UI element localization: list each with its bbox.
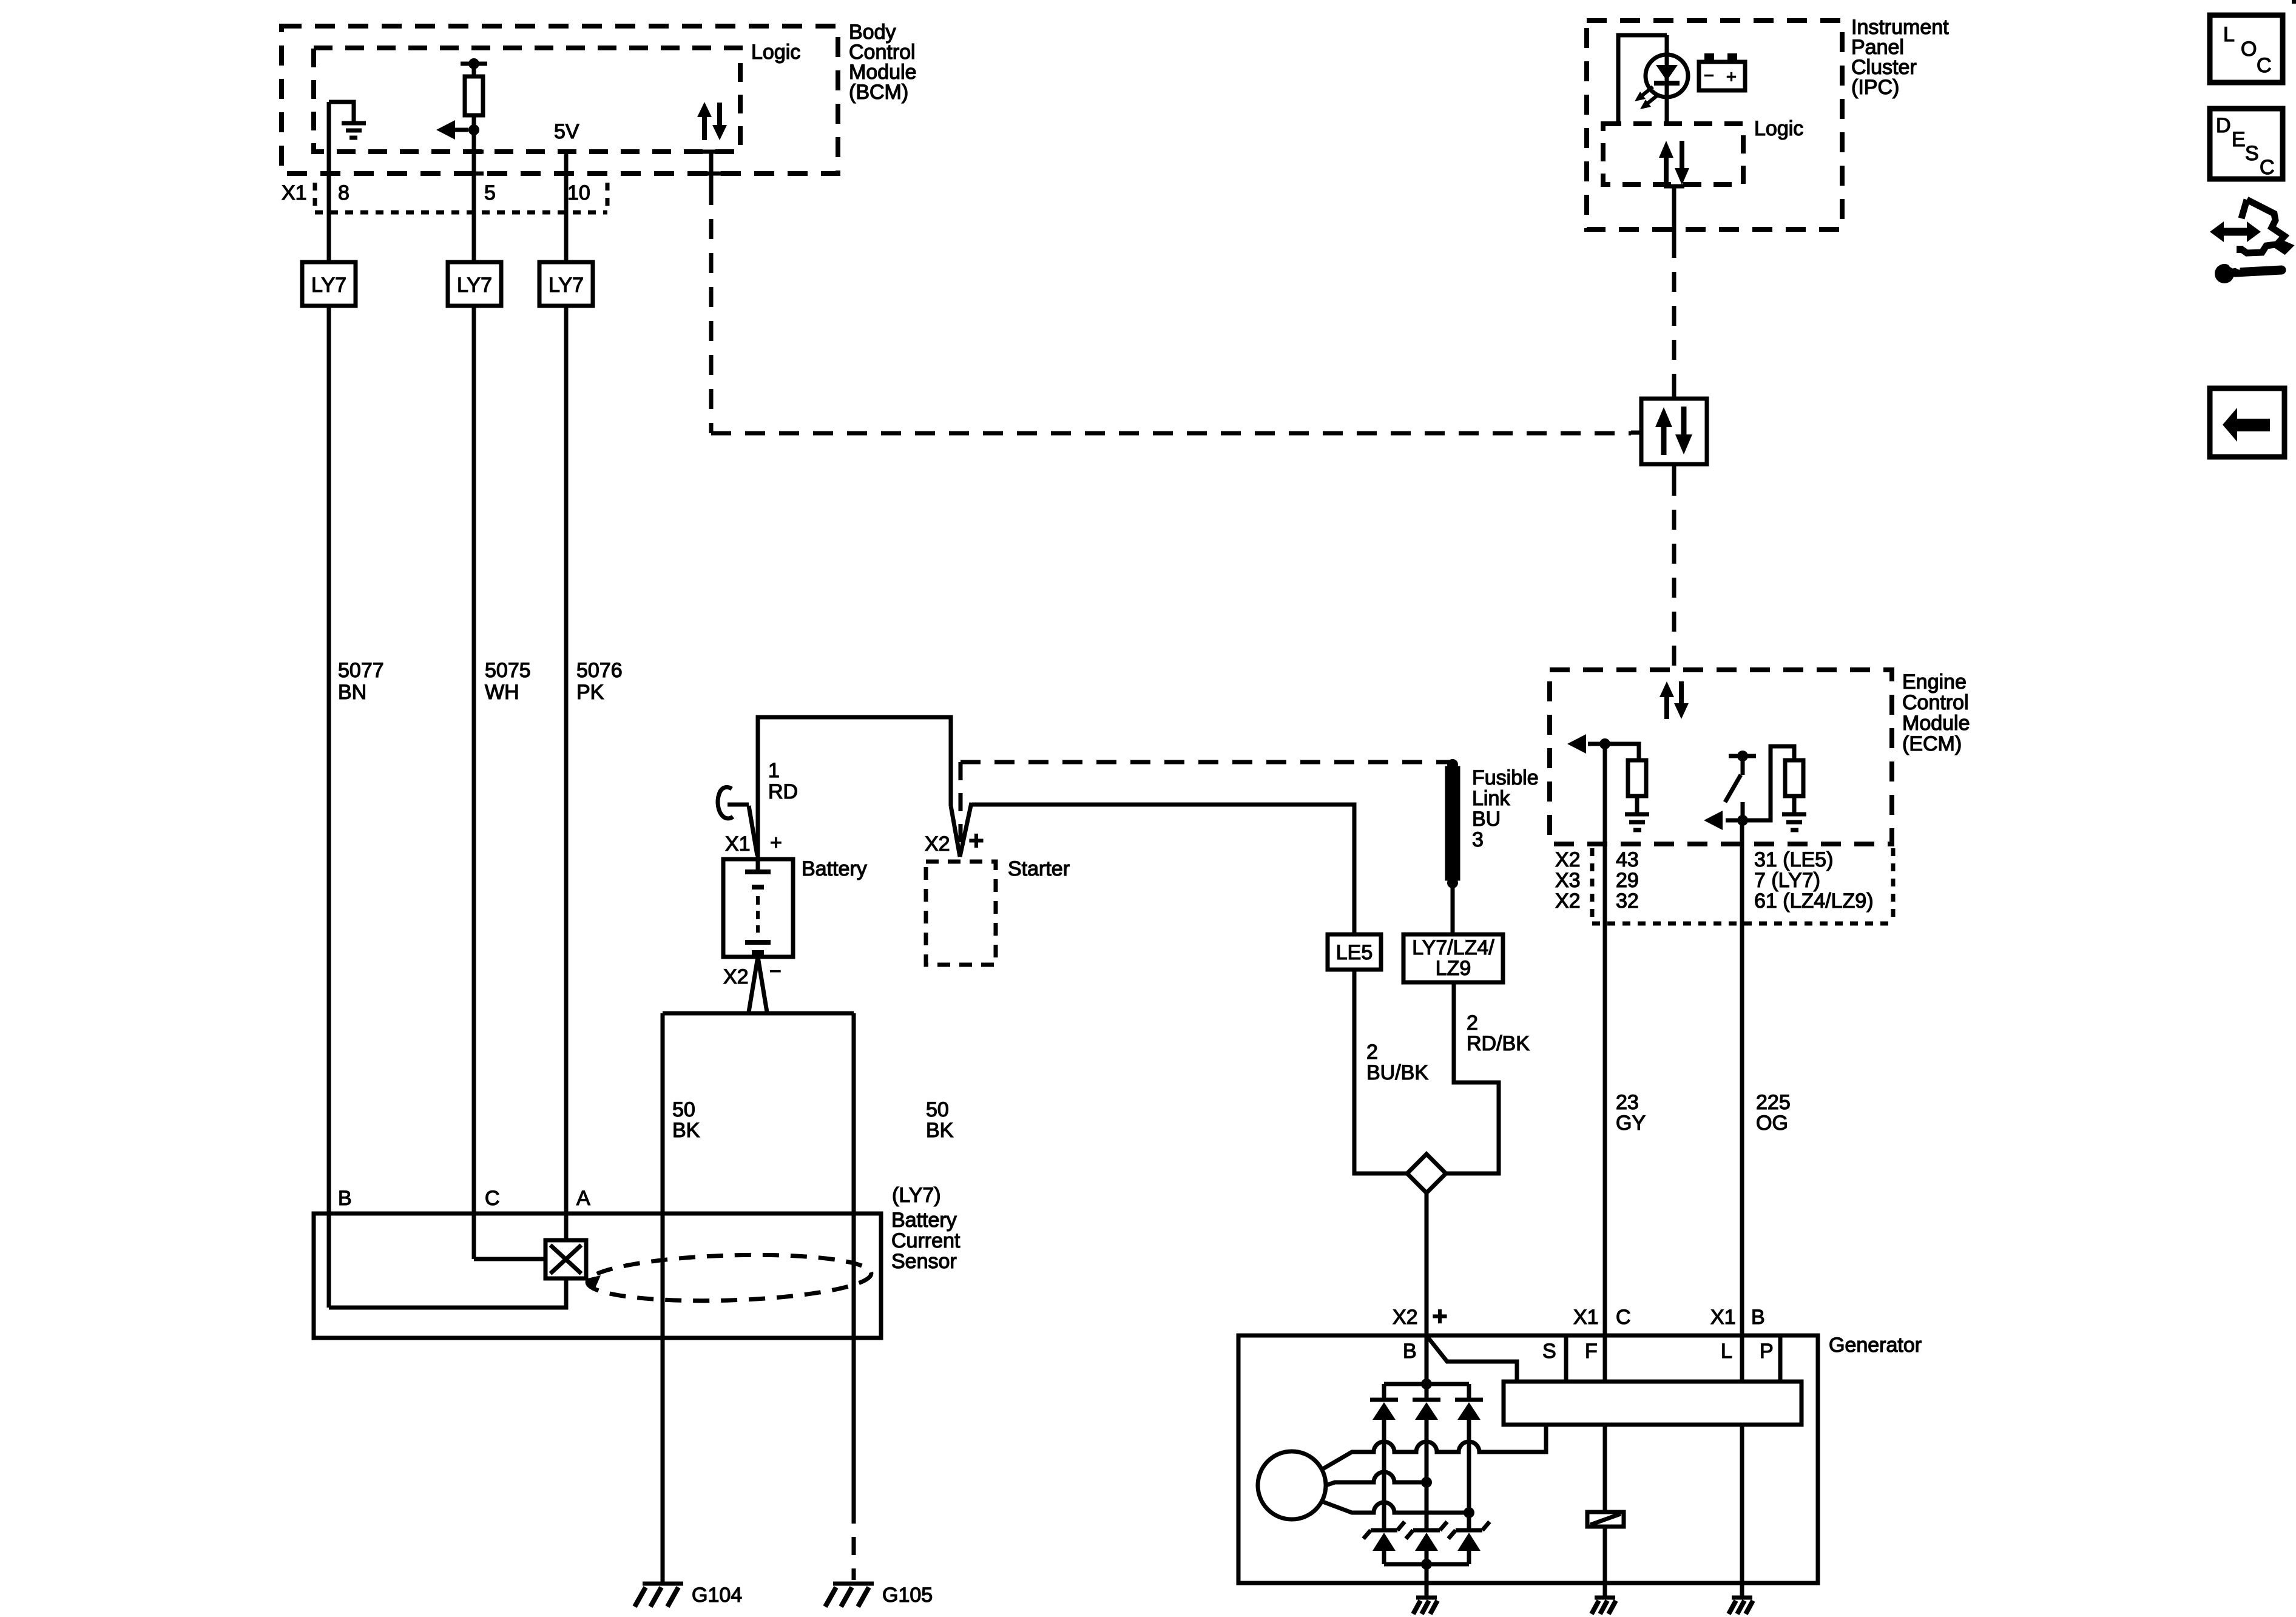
- DESC icon box: [2210, 109, 2283, 179]
- rectifier negative bus: [1384, 1562, 1469, 1567]
- svg-text:+: +: [1726, 67, 1737, 87]
- svg-text:LY7: LY7: [457, 274, 492, 297]
- svg-text:5076: 5076: [576, 659, 623, 682]
- switch lever: [1725, 775, 1741, 802]
- svg-text:X1: X1: [725, 832, 751, 856]
- svg-text:3: 3: [1472, 828, 1484, 851]
- route icon left arm: [2241, 200, 2247, 218]
- svg-text:G105: G105: [882, 1584, 933, 1607]
- svg-text:29: 29: [1616, 869, 1639, 892]
- battery plates: [756, 859, 760, 872]
- svg-text:LY7/LZ4/: LY7/LZ4/: [1412, 936, 1494, 959]
- splice diamond S161: [1407, 1154, 1446, 1193]
- svg-text:Starter: Starter: [1008, 857, 1070, 880]
- wire 2 RD/BK: [1446, 982, 1499, 1173]
- svg-text:C: C: [2260, 156, 2275, 179]
- battery negative bus: [663, 1011, 854, 1016]
- svg-text:Engine: Engine: [1902, 670, 1967, 694]
- starter X2 connector V: [951, 806, 960, 857]
- svg-text:A: A: [576, 1187, 590, 1210]
- svg-text:G104: G104: [692, 1584, 742, 1607]
- generator box: [1238, 1335, 1818, 1583]
- svg-text:(BCM): (BCM): [849, 81, 908, 104]
- svg-text:32: 32: [1616, 890, 1639, 913]
- wire 5077 BN run to sensor: [327, 306, 331, 1308]
- svg-text:7 (LY7): 7 (LY7): [1754, 869, 1820, 892]
- route icon stub: [2237, 246, 2243, 253]
- svg-text:BK: BK: [926, 1119, 954, 1142]
- svg-text:X2: X2: [1555, 890, 1581, 913]
- serial data gateway box: [1641, 399, 1707, 464]
- svg-text:PK: PK: [576, 681, 604, 704]
- wire 2 BU/BK: [1354, 970, 1407, 1173]
- svg-text:10: 10: [567, 181, 590, 204]
- svg-text:LY7: LY7: [311, 274, 346, 297]
- svg-text:(IPC): (IPC): [1851, 76, 1899, 99]
- svg-text:+: +: [770, 831, 782, 854]
- battery X1 connector stroke: [749, 806, 757, 856]
- voltage regulator box: [1504, 1382, 1801, 1425]
- svg-text:C: C: [485, 1187, 500, 1210]
- zener diode 1: [1363, 1522, 1405, 1564]
- IPC logic dashed box: [1603, 124, 1743, 184]
- switch top stub: [1741, 756, 1745, 775]
- starter dashed box: [926, 862, 996, 965]
- resistor R (BCM pull-up): [472, 64, 476, 76]
- svg-text:RD/BK: RD/BK: [1467, 1032, 1530, 1055]
- svg-text:8: 8: [338, 181, 349, 204]
- svg-text:WH: WH: [485, 681, 519, 704]
- svg-text:23: 23: [1616, 1091, 1639, 1114]
- svg-text:S: S: [2245, 142, 2259, 165]
- battery X2 connector V: [749, 957, 758, 1012]
- ECM connector dotted outline: [1592, 848, 1893, 923]
- svg-text:−: −: [769, 960, 782, 983]
- svg-text:X1: X1: [1710, 1306, 1736, 1329]
- gateway stub left: [1631, 431, 1641, 435]
- serial data arrows (gateway): [1655, 407, 1692, 455]
- wire fusible link to engine box: [1451, 883, 1455, 934]
- serial dashed wire IPC to gateway: [1672, 238, 1676, 389]
- resistor stub to ground: [1635, 796, 1639, 812]
- svg-text:5075: 5075: [485, 659, 531, 682]
- svg-text:BU: BU: [1472, 808, 1501, 831]
- svg-text:5V: 5V: [554, 120, 579, 143]
- wire F relay to ground: [1603, 1527, 1607, 1596]
- svg-text:B: B: [338, 1187, 352, 1210]
- hall sensor element X box: [545, 1240, 586, 1278]
- back icon box: [2210, 388, 2284, 457]
- terminal divider S|F: [1564, 1335, 1568, 1382]
- rectifier diode 2: [1413, 1384, 1440, 1530]
- LY7/LZ4/LZ9 box: [1403, 934, 1503, 982]
- svg-text:+: +: [969, 826, 984, 854]
- wire resistor to node: [472, 115, 476, 130]
- svg-text:D: D: [2216, 114, 2231, 137]
- dashed wire starter to fusible link: [961, 760, 1453, 765]
- svg-text:Module: Module: [1902, 712, 1970, 735]
- svg-text:Battery: Battery: [891, 1209, 957, 1232]
- svg-text:LZ9: LZ9: [1436, 957, 1471, 980]
- node dot negative bus: [1421, 1559, 1432, 1570]
- stator phase 3: [1323, 1502, 1469, 1513]
- wire P regulator to ground: [1740, 1425, 1744, 1596]
- zener diode 3: [1448, 1522, 1490, 1564]
- serial wire solid stub below logic: [709, 152, 714, 185]
- node dot ECM pin31: [1737, 815, 1748, 826]
- node dot B bus: [1421, 1379, 1432, 1389]
- svg-text:O: O: [2241, 38, 2257, 61]
- LED emission arrows: [1635, 87, 1658, 109]
- ground (generator B): [1413, 1598, 1437, 1614]
- svg-text:RD: RD: [768, 780, 798, 803]
- node dot resistor top: [468, 58, 479, 69]
- svg-text:X2: X2: [1555, 848, 1581, 871]
- svg-text:+: +: [1433, 1302, 1447, 1330]
- route icon outline: [2241, 200, 2289, 253]
- rectifier diode 3: [1455, 1384, 1483, 1530]
- svg-text:61 (LZ4/LZ9): 61 (LZ4/LZ9): [1754, 890, 1874, 913]
- svg-text:Logic: Logic: [751, 41, 800, 64]
- wire F regulator to field relay: [1603, 1425, 1607, 1512]
- resistor ECM right: [1785, 760, 1803, 796]
- svg-text:LY7: LY7: [549, 274, 584, 297]
- svg-text:Control: Control: [1902, 691, 1969, 714]
- wire 225 OG (pin 31 to generator P): [1740, 820, 1744, 1382]
- LE5 box: [1328, 934, 1381, 970]
- serial wire T-bar at BCM border: [698, 172, 724, 176]
- gateway stub top: [1672, 389, 1676, 399]
- wire 5075 WH upper segment: [472, 130, 476, 262]
- signal arrow left (ECM pin31): [1726, 819, 1743, 823]
- svg-text:BK: BK: [672, 1119, 700, 1142]
- wire 50 BK right dashed lower: [852, 1505, 856, 1580]
- svg-text:43: 43: [1616, 848, 1639, 871]
- wire 8 ground jog inside BCM: [329, 102, 354, 121]
- ground (BCM internal): [342, 123, 366, 138]
- wrench icon: [2215, 256, 2281, 283]
- wire 1 RD battery to starter: [758, 717, 951, 859]
- ECM module dashed box: [1550, 670, 1892, 844]
- LOC icon box: [2210, 15, 2283, 83]
- svg-text:X2: X2: [1393, 1306, 1418, 1329]
- svg-text:5: 5: [484, 181, 496, 204]
- svg-text:(LY7): (LY7): [892, 1184, 941, 1207]
- serial dashed wire gateway to ECM: [1672, 476, 1676, 670]
- battery current sensor box: [314, 1214, 881, 1338]
- terminal divider L|P: [1778, 1335, 1783, 1382]
- svg-text:5077: 5077: [338, 659, 384, 682]
- fusible link BU element: [1447, 768, 1458, 879]
- svg-text:X1: X1: [282, 181, 307, 204]
- ground (ECM left): [1625, 814, 1649, 830]
- wire node to resistor (ECM right): [1743, 746, 1794, 820]
- battery box: [723, 859, 793, 957]
- IPC battery symbol: [1699, 62, 1745, 90]
- svg-text:50: 50: [926, 1098, 949, 1121]
- wire 23 GY (pin 43 to generator F): [1603, 744, 1607, 1382]
- B terminal diagonal to S: [1428, 1338, 1517, 1382]
- svg-text:F: F: [1585, 1340, 1598, 1363]
- svg-text:50: 50: [672, 1098, 695, 1121]
- svg-text:1: 1: [768, 759, 780, 782]
- switch bottom stub: [1741, 802, 1745, 820]
- node dot (BCM pin5): [468, 124, 479, 135]
- wire C into sensor element: [474, 1257, 545, 1261]
- page corner mark: [2292, 0, 2296, 4]
- svg-text:225: 225: [1756, 1091, 1791, 1114]
- svg-text:C: C: [1616, 1306, 1631, 1329]
- ground (generator P): [1729, 1598, 1753, 1614]
- serial data arrows (ECM): [1660, 681, 1689, 719]
- BCM logic dashed box: [314, 48, 740, 152]
- sensing loop dashed ellipse: [587, 1251, 872, 1305]
- wire F cell: [1603, 1382, 1607, 1383]
- svg-text:X2: X2: [723, 965, 749, 988]
- wire 50 BK right (G105) upper: [852, 1013, 856, 1505]
- svg-text:31 (LE5): 31 (LE5): [1754, 848, 1833, 871]
- svg-text:E: E: [2232, 128, 2246, 151]
- wire 5076 PK run to sensor: [564, 306, 569, 1240]
- svg-text:B: B: [1403, 1340, 1417, 1363]
- signal arrow left (ECM pin43): [1588, 742, 1605, 746]
- field relay box: [1587, 1512, 1624, 1527]
- zener diode 2: [1406, 1522, 1447, 1564]
- dashed wire drop at starter: [959, 762, 963, 851]
- svg-text:OG: OG: [1756, 1112, 1788, 1135]
- svg-text:B: B: [1751, 1306, 1765, 1329]
- border tick wire5 at logic box: [464, 150, 484, 154]
- ground (ECM right): [1782, 814, 1806, 830]
- wire 5076 PK upper segment (5V): [564, 152, 569, 262]
- switch fixed contact bar (ECM right): [1729, 754, 1756, 758]
- rotor: [1258, 1451, 1326, 1519]
- svg-text:BU/BK: BU/BK: [1366, 1061, 1428, 1084]
- svg-text:2: 2: [1366, 1041, 1378, 1064]
- LY7 box wire 8: [302, 262, 356, 306]
- svg-text:P: P: [1760, 1340, 1774, 1363]
- signal arrow left (BCM pin5): [452, 128, 468, 132]
- node dot phase 2: [1421, 1477, 1432, 1488]
- serial data arrows (BCM): [697, 102, 727, 140]
- svg-text:LE5: LE5: [1336, 941, 1373, 964]
- resistor top bar: [461, 62, 487, 66]
- sensing loop arrow tip: [585, 1275, 601, 1289]
- resistor ECM left: [1628, 760, 1646, 796]
- LY7 box wire 5: [448, 262, 501, 306]
- node dot fusible link top: [1447, 759, 1458, 770]
- serial wire T-bar at logic border: [698, 150, 724, 154]
- back icon arrow: [2223, 408, 2270, 442]
- svg-text:(ECM): (ECM): [1902, 732, 1962, 755]
- serial wire stub IPC: [1672, 184, 1676, 238]
- serial wire T-bar below IPC logic: [1664, 184, 1684, 189]
- cable clip hook at battery positive: [718, 787, 733, 818]
- node dot fusible link bottom: [1447, 877, 1458, 888]
- wire 50 BK left (G104) upper: [661, 1013, 665, 1582]
- svg-text:X1: X1: [1573, 1306, 1599, 1329]
- ground G105: [825, 1584, 874, 1607]
- stator phase 1: [1323, 1425, 1546, 1469]
- rectifier positive bus: [1384, 1382, 1469, 1386]
- wire B jog to sensor element bottom: [329, 1278, 566, 1308]
- wire 5075 WH run to sensor: [472, 306, 476, 1259]
- svg-text:2: 2: [1467, 1011, 1478, 1035]
- stator phase 2: [1326, 1472, 1427, 1485]
- node dot ECM pin43: [1599, 738, 1610, 749]
- ground G104: [635, 1584, 683, 1607]
- resistor stub to ground: [1792, 796, 1797, 812]
- svg-text:X3: X3: [1555, 869, 1581, 892]
- serial data dashed wire BCM to gateway: [711, 431, 1631, 436]
- svg-text:Generator: Generator: [1829, 1334, 1922, 1357]
- rectifier diode 1: [1370, 1384, 1398, 1530]
- svg-text:Logic: Logic: [1754, 117, 1803, 140]
- svg-text:X2: X2: [925, 832, 950, 856]
- svg-text:−: −: [1704, 66, 1714, 86]
- svg-text:Link: Link: [1472, 787, 1510, 810]
- IPC module dashed box: [1587, 21, 1842, 229]
- svg-text:BN: BN: [338, 681, 366, 704]
- svg-text:Current: Current: [891, 1229, 961, 1252]
- wire node to resistor (ECM left): [1605, 744, 1639, 760]
- svg-text:L: L: [2223, 23, 2235, 46]
- svg-text:GY: GY: [1616, 1112, 1646, 1135]
- wire to telltale lamp: [1618, 35, 1667, 124]
- svg-text:L: L: [1721, 1340, 1732, 1363]
- wire 5077 BN upper segment: [327, 102, 331, 262]
- node dot switch top: [1737, 751, 1748, 761]
- svg-text:Sensor: Sensor: [891, 1250, 957, 1273]
- BCM module dashed box: [282, 26, 838, 174]
- wire starter to junction (battery positive feed): [971, 805, 1354, 934]
- telltale LED lamp: [1665, 35, 1669, 124]
- wire negative bus to ground: [1425, 1564, 1429, 1596]
- route icon double arrow: [2210, 221, 2261, 242]
- gateway stub bottom: [1672, 464, 1676, 476]
- ground (generator F): [1592, 1598, 1616, 1614]
- svg-text:Battery: Battery: [802, 857, 867, 880]
- LY7 box wire 10: [539, 262, 593, 306]
- node dot phase 3: [1464, 1507, 1474, 1518]
- border tick wire5 at BCM box: [464, 172, 484, 176]
- X1 connector dotted outline (BCM): [315, 183, 607, 212]
- serial data arrows (IPC logic): [1659, 141, 1689, 185]
- svg-text:C: C: [2257, 54, 2272, 77]
- serial data dashed wire down from BCM: [709, 185, 714, 433]
- wire splice to generator B: [1425, 1193, 1429, 1384]
- svg-text:S: S: [1542, 1340, 1556, 1363]
- svg-text:Fusible: Fusible: [1472, 766, 1539, 789]
